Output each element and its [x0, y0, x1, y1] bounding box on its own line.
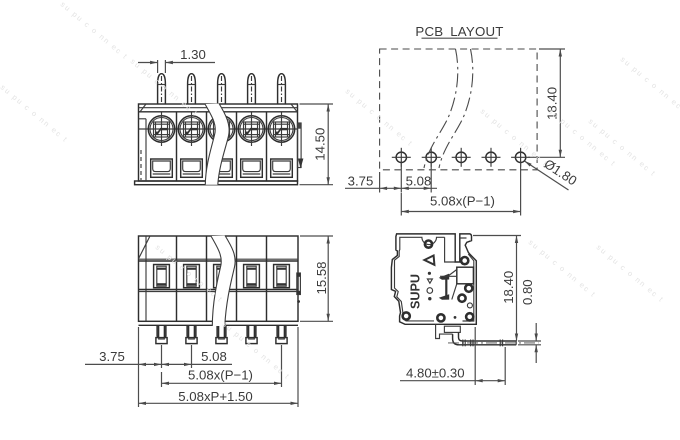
view C break band	[211, 236, 235, 327]
view D top notch detail	[445, 237, 456, 262]
svg-text:0.80: 0.80	[520, 279, 535, 305]
view A section divider 2	[206, 112, 208, 181]
dimension 5.08x(P-1) (PCB)	[401, 163, 520, 216]
PCB hole H4	[482, 148, 501, 167]
PCB LAYOUT title	[415, 24, 503, 39]
dimension 3.75 (view C)	[85, 349, 162, 366]
view D small hole	[467, 303, 472, 308]
dimension 5.08 (view C)	[162, 349, 233, 366]
svg-text:5.08x(P−1): 5.08x(P−1)	[188, 368, 253, 383]
view D rivet R5	[403, 312, 410, 319]
svg-text:PCB LAYOUT: PCB LAYOUT	[415, 24, 503, 39]
view D rivet R2	[461, 257, 468, 264]
svg-text:3.75: 3.75	[99, 349, 125, 364]
screw slot T3 (view C)	[214, 265, 230, 288]
view D certification marks	[427, 272, 433, 301]
view C right latch	[297, 273, 301, 303]
view A section divider 3	[236, 112, 238, 181]
PCB hole H5	[511, 148, 530, 167]
view D solder pin	[448, 332, 539, 346]
pin tail K1 (view C)	[156, 325, 167, 343]
view D rivet R6	[437, 314, 444, 321]
svg-text:3.75: 3.75	[348, 174, 374, 189]
pin P3 (view A)	[218, 74, 226, 104]
view A section divider 4	[266, 112, 268, 181]
screw head S5 (view A)	[268, 113, 294, 147]
svg-text:4.80±0.30: 4.80±0.30	[406, 366, 465, 381]
svg-text:15.58: 15.58	[314, 261, 329, 294]
dimension 4.80 plus-minus 0.30	[400, 327, 505, 385]
PCB hole H2	[422, 148, 441, 167]
svg-text:18.40: 18.40	[501, 271, 516, 304]
wire opening W3 (view A)	[211, 159, 233, 177]
svg-text:5.08xP+1.50: 5.08xP+1.50	[178, 389, 252, 404]
screw head S4 (view A)	[238, 113, 264, 147]
svg-text:SUPU: SUPU	[409, 274, 423, 309]
view C section divider 3	[236, 236, 238, 321]
view A front-view body outline	[139, 104, 298, 181]
view D inner contour	[395, 237, 474, 321]
leader diameter 1.80 (hole size)	[524, 156, 579, 190]
view D warning triangle	[424, 256, 434, 265]
view A top cap lines	[139, 104, 298, 112]
view D mounting foot and bottom jog	[436, 324, 461, 338]
view D wire port	[457, 267, 474, 284]
view C dim extension lines	[139, 327, 299, 407]
view A screws horizontal centerline	[139, 128, 298, 130]
PCB break lines	[424, 49, 473, 168]
view C base strip	[139, 324, 299, 326]
view D SUPU logo	[409, 274, 423, 309]
svg-text:5.08: 5.08	[201, 349, 227, 364]
view C upper band lines	[139, 259, 299, 261]
view A break band	[205, 104, 229, 185]
dimension 3.75 (PCB)	[345, 163, 401, 193]
view A base strip	[135, 181, 298, 185]
view C top-left bevel	[139, 236, 151, 259]
screw slot T2 (view C)	[184, 265, 200, 288]
pin P4 (view A)	[248, 74, 256, 104]
pin P1 (view A)	[158, 74, 166, 104]
dimension 1.30 (pin width)	[138, 47, 215, 73]
pin tail K3 (view C)	[216, 325, 227, 343]
view C section divider 2	[206, 236, 208, 321]
dimension 15.58 (view C height)	[300, 236, 333, 321]
dimension 14.50 (view A height)	[300, 104, 334, 185]
screw slot T4 (view C)	[244, 265, 260, 288]
view C middle band lines	[139, 290, 299, 292]
view A right latch detail	[298, 123, 304, 169]
screw head S2 (view A)	[178, 113, 204, 147]
dimension 18.40 (PCB)	[528, 49, 565, 157]
wire opening W2 (view A)	[181, 159, 203, 177]
view D small pin dot	[454, 316, 457, 319]
pin P2 (view A)	[188, 74, 196, 104]
dimension 0.80 (pin thickness)	[518, 279, 541, 363]
dimension 5.08 (PCB)	[401, 163, 437, 193]
screw head S3 (view A)	[208, 113, 234, 147]
dimension 18.40 (view D)	[473, 236, 521, 342]
dimension 5.08xP+1.50 (view C)	[139, 389, 299, 405]
screw slot T1 (view C)	[154, 265, 170, 288]
view C section divider 1	[176, 236, 178, 321]
dimension 5.08x(P-1) (view C)	[162, 368, 282, 386]
view C body outline	[139, 236, 299, 321]
svg-text:5.08x(P−1): 5.08x(P−1)	[430, 194, 495, 209]
pin tail K2 (view C)	[186, 325, 197, 343]
view C section divider 4	[266, 236, 268, 321]
view D rivet R3	[465, 285, 472, 292]
wire opening W5 (view A)	[271, 159, 293, 177]
view C left inner wall	[145, 236, 147, 321]
view A section divider 1	[176, 112, 178, 181]
PCB hole H1	[392, 148, 411, 167]
svg-text:1.30: 1.30	[180, 47, 206, 62]
pin tail K4 (view C)	[246, 325, 257, 343]
view D rivet R1	[425, 241, 432, 248]
screw slot T5 (view C)	[274, 265, 290, 288]
view D rivet R7	[466, 313, 473, 320]
view D side-view outer outline	[391, 234, 476, 324]
view D rivet R4	[458, 295, 465, 302]
pin tail K5 (view C)	[276, 325, 287, 343]
view A left step	[139, 119, 147, 181]
pin P5 (view A)	[278, 74, 286, 104]
PCB outline dashed rectangle	[380, 49, 537, 170]
screw head S1 (view A)	[148, 113, 174, 147]
PCB hole H3	[452, 148, 471, 167]
svg-text:14.50: 14.50	[313, 128, 328, 161]
wire opening W4 (view A)	[241, 159, 263, 177]
view D clamp mechanism	[439, 270, 457, 300]
wire opening W1 (view A)	[151, 159, 173, 177]
svg-text:5.08: 5.08	[406, 174, 432, 189]
